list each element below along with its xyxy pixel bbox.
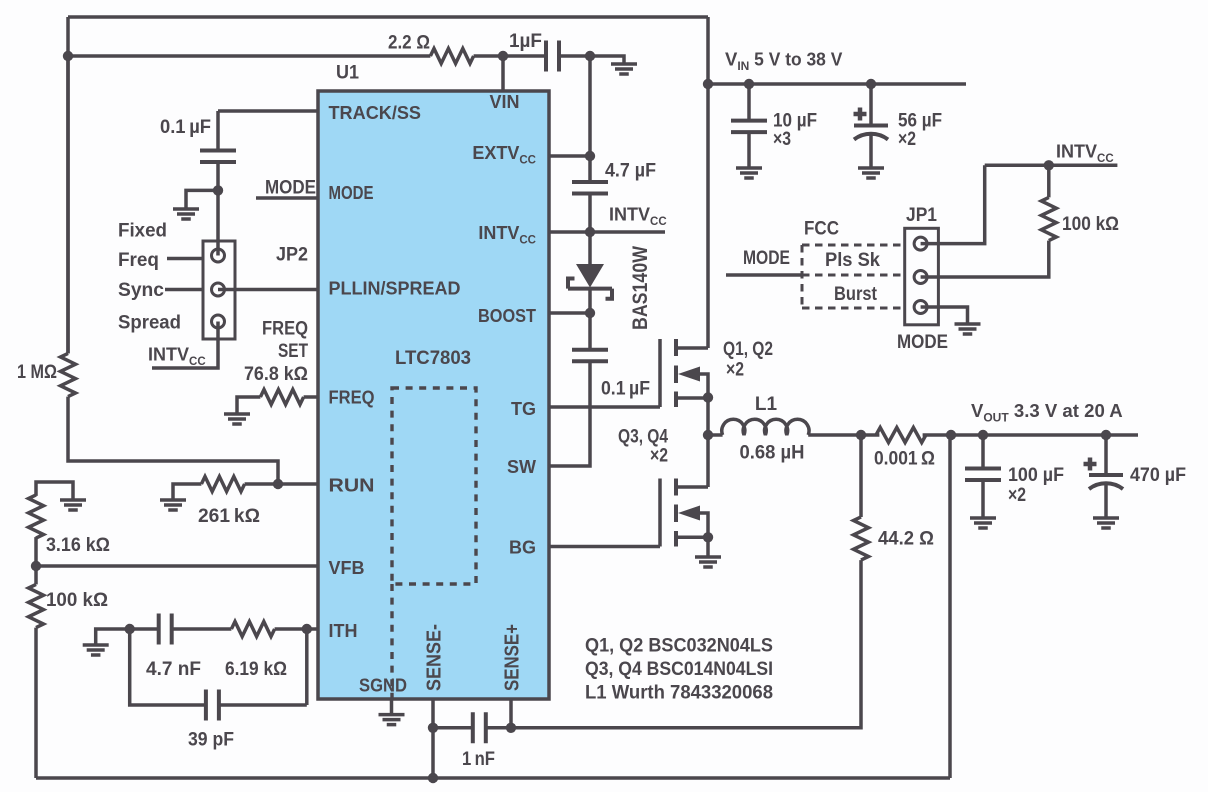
- node EXTVCC: [585, 151, 595, 161]
- node 0.1uF / ground junction: [213, 185, 223, 195]
- node VIN pin junction: [498, 51, 508, 61]
- svg-text:×3: ×3: [773, 129, 791, 150]
- svg-text:470 µF: 470 µF: [1130, 465, 1186, 486]
- svg-text:TRACK/SS: TRACK/SS: [329, 103, 422, 123]
- wire 261k to ground: [173, 484, 201, 500]
- ground at 10uF: [736, 168, 762, 178]
- wire JP2 pin3 to INTVCC stub: [152, 322, 218, 369]
- wire 10uF top lead: [747, 84, 751, 121]
- wire 1M to RUN: [68, 397, 278, 484]
- connector JP1 body: [905, 228, 939, 324]
- wire EXTVCC pin: [549, 154, 590, 158]
- transistor Q1 channel segments: [674, 339, 678, 407]
- svg-text:100 kΩ: 100 kΩ: [46, 590, 108, 611]
- transistor Q3 body diode arrow: [678, 506, 700, 521]
- diode BAS140W: [576, 264, 604, 288]
- svg-text:100 µF: 100 µF: [1008, 465, 1064, 486]
- svg-text:39 pF: 39 pF: [188, 730, 234, 751]
- svg-text:×2: ×2: [1008, 485, 1026, 506]
- svg-text:LTC7803: LTC7803: [395, 348, 471, 369]
- svg-text:BOOST: BOOST: [478, 306, 536, 326]
- capacitor 1nF: [473, 712, 486, 743]
- JP1 pin 3: [914, 301, 927, 314]
- wire 470uF top lead: [1104, 435, 1108, 475]
- svg-text:MODE: MODE: [265, 178, 316, 199]
- svg-text:Q3, Q4: Q3, Q4: [618, 427, 668, 448]
- ground at SGND: [379, 715, 405, 725]
- op-amp U1 LTC7803 body: [318, 91, 549, 699]
- JP2 pin 2: [212, 283, 225, 296]
- wire JP1 pin3 to ground: [921, 307, 968, 324]
- svg-text:FREQ: FREQ: [329, 388, 375, 408]
- wire MODE net stub: [256, 196, 318, 200]
- wire 100uF top lead: [981, 435, 985, 469]
- svg-text:FCC: FCC: [804, 219, 839, 240]
- capacitor 39pF: [206, 690, 219, 721]
- svg-text:Fixed: Fixed: [118, 221, 167, 242]
- svg-text:44.2 Ω: 44.2 Ω: [878, 529, 934, 550]
- node RUN junction: [273, 479, 283, 489]
- wire Freq stub: [167, 257, 203, 261]
- svg-text:BAS140W: BAS140W: [629, 246, 652, 330]
- node 10uF tap: [744, 79, 754, 89]
- wire 3.16k to VFB node: [34, 537, 38, 584]
- wire 10uF bottom lead: [747, 132, 751, 168]
- wire INTVCC net stub: [590, 230, 665, 234]
- svg-text:0.68 µH: 0.68 µH: [740, 443, 805, 464]
- wire 0.001 to VOUT: [923, 433, 1138, 437]
- capacitor 0.1uF boost: [572, 350, 608, 362]
- svg-text:PLLIN/SPREAD: PLLIN/SPREAD: [329, 279, 461, 299]
- wire SENSE+ to 44.2 ohm: [511, 560, 861, 728]
- capacitor 4.7nF: [159, 614, 172, 645]
- wire 39pF branch: [130, 629, 307, 705]
- svg-text:261 kΩ: 261 kΩ: [198, 506, 260, 527]
- svg-text:MODE: MODE: [897, 332, 948, 353]
- wire EXTVCC column upper: [588, 56, 592, 182]
- node 56uF tap: [866, 79, 876, 89]
- wire SENSE- pin drop: [431, 699, 435, 778]
- svg-text:0.1 µF: 0.1 µF: [601, 379, 650, 400]
- wire 100k bottom to rail: [34, 628, 38, 778]
- svg-text:MODE: MODE: [329, 183, 374, 203]
- resistor 100 kohm mode: [1041, 197, 1056, 240]
- node ITH right: [302, 624, 312, 634]
- wire 4.7uF to INTVCC node: [588, 194, 592, 266]
- svg-text:3.16 kΩ: 3.16 kΩ: [46, 535, 110, 556]
- svg-text:Spread: Spread: [118, 313, 181, 334]
- wire MODE net stub left: [726, 273, 802, 277]
- capacitor 1uF: [546, 41, 559, 72]
- wire Q3 source to ground: [706, 537, 710, 557]
- ground at 3.16k: [60, 500, 86, 510]
- node 1uF / EXTVCC column junction: [585, 51, 595, 61]
- capacitor 470uF polarized: [1089, 473, 1123, 477]
- wire VIN rail: [708, 82, 966, 86]
- wire ITH left to 4.7nF: [130, 627, 159, 631]
- wire 44.2 top lead: [859, 435, 863, 517]
- resistor 261 kohm: [201, 477, 244, 492]
- svg-text:2.2 Ω: 2.2 Ω: [388, 33, 430, 54]
- svg-text:SENSE-: SENSE-: [423, 624, 445, 691]
- resistor 1 Mohm: [61, 353, 76, 396]
- svg-text:L1 Wurth 7843320068: L1 Wurth 7843320068: [585, 683, 773, 704]
- node INTVCC right: [1044, 160, 1054, 170]
- svg-text:Sync: Sync: [118, 280, 164, 301]
- node SENSE- / bottom rail: [428, 773, 438, 783]
- svg-text:6.19 kΩ: 6.19 kΩ: [225, 659, 287, 680]
- wire BOOST pin: [549, 311, 590, 315]
- capacitor 4.7uF: [572, 182, 608, 194]
- svg-text:JP1: JP1: [906, 205, 937, 226]
- capacitor 56uF x2 polarized: [854, 124, 888, 128]
- JP1 pin 2: [914, 271, 927, 284]
- ground at JP1: [955, 324, 981, 334]
- svg-text:0.001 Ω: 0.001 Ω: [874, 449, 935, 470]
- wire SENSE+ pin drop: [509, 699, 513, 728]
- transistor Q1 gate bar: [658, 339, 662, 407]
- ground at ITH: [83, 645, 109, 655]
- transistor Q3 source lead: [676, 536, 708, 540]
- wire SGND stub: [390, 699, 394, 715]
- svg-text:4.7 nF: 4.7 nF: [146, 659, 201, 680]
- svg-text:SW: SW: [507, 457, 536, 477]
- wire SW node to L1: [708, 433, 723, 437]
- wire INTVCC right net: [985, 164, 1118, 168]
- svg-text:JP2: JP2: [276, 245, 308, 266]
- svg-text:1 MΩ: 1 MΩ: [17, 362, 57, 383]
- transistor Q3 gate bar: [658, 479, 662, 547]
- wire 56uF bottom lead: [869, 135, 873, 169]
- wire bottom rail: [36, 435, 950, 778]
- wire left rail vertical: [66, 17, 70, 353]
- wire VIN column top down to Q1 drain: [706, 17, 710, 348]
- svg-text:×2: ×2: [898, 129, 916, 150]
- node 100uF tap: [978, 430, 988, 440]
- wire VFB pin: [36, 564, 318, 568]
- node VIN rail at column: [703, 79, 713, 89]
- capacitor 0.1uF soft-start: [200, 151, 236, 163]
- node VFB: [31, 561, 41, 571]
- svg-text:×2: ×2: [650, 446, 668, 467]
- svg-text:ITH: ITH: [329, 621, 358, 641]
- wire 3.16k top to ground: [36, 482, 73, 500]
- ground at 100uF: [970, 518, 996, 528]
- wire 1M rail top: [66, 56, 70, 353]
- wire INTVCC pin: [549, 230, 590, 234]
- wire 0.1uF bottom to JP2 pin1: [216, 162, 220, 256]
- wire BG pin to Q3 gate: [549, 545, 660, 549]
- svg-text:76.8 kΩ: 76.8 kΩ: [244, 364, 308, 385]
- JP2 pin 3: [212, 315, 225, 328]
- wire ITH ground stub: [96, 629, 130, 645]
- transistor Q3 channel segments: [674, 479, 678, 547]
- ground at 261k: [160, 500, 186, 510]
- node left rail / 2.2 ohm feed junction: [63, 51, 73, 61]
- node BOOST: [585, 308, 595, 318]
- wire 56uF top lead: [869, 84, 873, 126]
- node VOUT sense: [946, 430, 956, 440]
- svg-text:BG: BG: [509, 538, 536, 558]
- capacitor 100uF x2: [965, 469, 1001, 481]
- svg-text:Freq: Freq: [118, 250, 159, 271]
- wire L1 to 0.001 ohm: [808, 433, 879, 437]
- svg-text:100 kΩ: 100 kΩ: [1062, 214, 1119, 235]
- svg-text:4.7 µF: 4.7 µF: [605, 161, 656, 182]
- wire TRACK/SS pin: [218, 111, 318, 151]
- resistor 76.8 kohm: [260, 390, 303, 405]
- svg-text:Burst: Burst: [834, 284, 878, 305]
- wire Sync stub: [165, 288, 203, 292]
- node Q1 source junction: [703, 392, 713, 402]
- resistor 44.2 ohm: [854, 517, 869, 560]
- wire 100k right top lead: [1047, 165, 1051, 197]
- resistor 3.16 kohm: [29, 495, 44, 538]
- transistor Q1 drain lead: [676, 346, 708, 350]
- svg-text:RUN: RUN: [329, 476, 375, 496]
- svg-text:SENSE+: SENSE+: [501, 624, 523, 691]
- ground at 56uF: [858, 168, 884, 178]
- wire PLLIN/SPREAD pin: [218, 288, 318, 292]
- wire 2.2 ohm to 1uF cap: [474, 54, 546, 58]
- wire Q1 source to SW node: [706, 398, 710, 488]
- wire 2.2 ohm feed: [68, 54, 430, 58]
- wire SENSE- to 1nF: [433, 726, 473, 730]
- svg-text:VIN: VIN: [489, 92, 519, 112]
- svg-text:Q3, Q4 BSC014N04LSI: Q3, Q4 BSC014N04LSI: [585, 659, 773, 680]
- svg-text:MODE: MODE: [743, 248, 790, 269]
- node 470uF tap: [1101, 430, 1111, 440]
- svg-text:TG: TG: [511, 399, 536, 419]
- svg-text:VFB: VFB: [329, 558, 365, 578]
- wire JP1 pin1 to INTVCC: [921, 165, 985, 243]
- transistor Q3 drain lead: [676, 485, 708, 489]
- wire 76.8k to ground: [237, 397, 260, 414]
- wire VIN pin drop: [501, 56, 505, 91]
- node Q3 source junction: [703, 532, 713, 542]
- dashed internal block: [392, 388, 476, 584]
- wire RUN pin: [245, 482, 318, 486]
- dashed SGND internal line: [390, 584, 393, 699]
- ground at soft-start cap: [173, 209, 199, 219]
- svg-text:1µF: 1µF: [509, 31, 542, 52]
- svg-text:SGND: SGND: [359, 676, 407, 696]
- wire 100uF bottom lead: [981, 480, 985, 518]
- wire 100k right bottom to JP1 pin2: [921, 241, 1049, 277]
- node INTVCC: [585, 227, 595, 237]
- wire top loop from left rail to VIN column: [68, 15, 708, 19]
- wire 470uF bottom lead: [1104, 484, 1108, 518]
- ground at FREQ: [224, 414, 250, 424]
- node SENSE+ / 1nF: [506, 723, 516, 733]
- inductor L1: [722, 419, 809, 435]
- connector JP2 body: [203, 241, 235, 339]
- resistor 100 kohm feedback: [29, 584, 44, 627]
- capacitor 10uF x3: [731, 121, 767, 133]
- transistor Q1 body diode arrow: [678, 367, 700, 382]
- node L1 output: [856, 430, 866, 440]
- wire 4.7nF to 6.19k: [172, 627, 232, 631]
- JP1 pin 1: [914, 237, 927, 250]
- resistor 6.19 kohm: [231, 622, 274, 637]
- ground at 470uF: [1093, 518, 1119, 528]
- svg-text:1 nF: 1 nF: [462, 749, 495, 770]
- wire 6.19k to ITH pin: [275, 627, 318, 631]
- svg-text:FREQ: FREQ: [262, 319, 308, 340]
- resistor 2.2 ohm: [430, 49, 473, 64]
- wire ground stub at 0.1uF: [186, 190, 218, 209]
- svg-text:SET: SET: [278, 341, 308, 362]
- ground at Q3 source: [695, 557, 721, 567]
- wire 1nF to SENSE+: [486, 726, 511, 730]
- resistor 0.001 ohm: [876, 428, 926, 443]
- wire diode to BOOST: [588, 289, 592, 350]
- svg-text:L1: L1: [755, 394, 778, 415]
- wire FREQ pin: [304, 395, 318, 399]
- svg-text:Pls Sk: Pls Sk: [825, 250, 880, 271]
- dashed FCC selection box: [802, 245, 905, 308]
- node SW switch node: [703, 430, 713, 440]
- wire TG pin to Q1 gate: [549, 405, 660, 409]
- wire boost cap to SW pin: [549, 361, 590, 466]
- transistor Q1 source lead: [676, 396, 708, 400]
- node SENSE- / 1nF: [428, 723, 438, 733]
- svg-text:Q1, Q2 BSC032N04LS: Q1, Q2 BSC032N04LS: [585, 636, 773, 657]
- ground at 1uF: [611, 64, 637, 74]
- svg-text:×2: ×2: [726, 360, 744, 381]
- svg-text:0.1 µF: 0.1 µF: [160, 117, 211, 138]
- svg-text:U1: U1: [336, 63, 359, 84]
- JP2 pin 1: [212, 249, 225, 262]
- svg-text:Q1, Q2: Q1, Q2: [723, 339, 773, 360]
- node ITH left: [125, 624, 135, 634]
- wire 1uF to ground stub: [559, 56, 624, 64]
